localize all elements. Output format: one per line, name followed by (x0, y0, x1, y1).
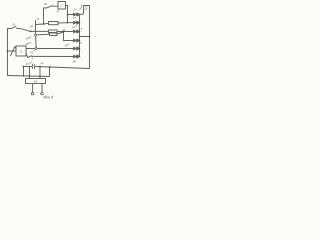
svg-text:5: 5 (32, 62, 34, 65)
svg-text:31: 31 (36, 17, 40, 21)
svg-text:17: 17 (60, 5, 63, 8)
svg-text:42: 42 (40, 61, 44, 65)
svg-text:12: 12 (19, 51, 22, 54)
svg-text:24: 24 (12, 22, 16, 26)
svg-text:37: 37 (56, 9, 60, 13)
svg-text:32: 32 (73, 7, 77, 11)
svg-text:29: 29 (25, 37, 29, 41)
svg-text:Фиг.4: Фиг.4 (43, 94, 53, 99)
svg-text:43: 43 (25, 62, 29, 66)
svg-text:30: 30 (30, 24, 34, 28)
svg-text:33: 33 (73, 16, 77, 20)
svg-text:44: 44 (34, 80, 38, 84)
svg-text:34: 34 (72, 26, 76, 30)
svg-text:~: ~ (36, 90, 38, 94)
svg-text:40: 40 (25, 42, 29, 46)
svg-text:9: 9 (81, 28, 83, 31)
svg-text:28: 28 (44, 2, 48, 6)
svg-text:4: 4 (32, 57, 34, 60)
svg-text:41: 41 (30, 51, 34, 55)
svg-text:8: 8 (80, 42, 82, 45)
svg-text:38: 38 (72, 60, 76, 64)
